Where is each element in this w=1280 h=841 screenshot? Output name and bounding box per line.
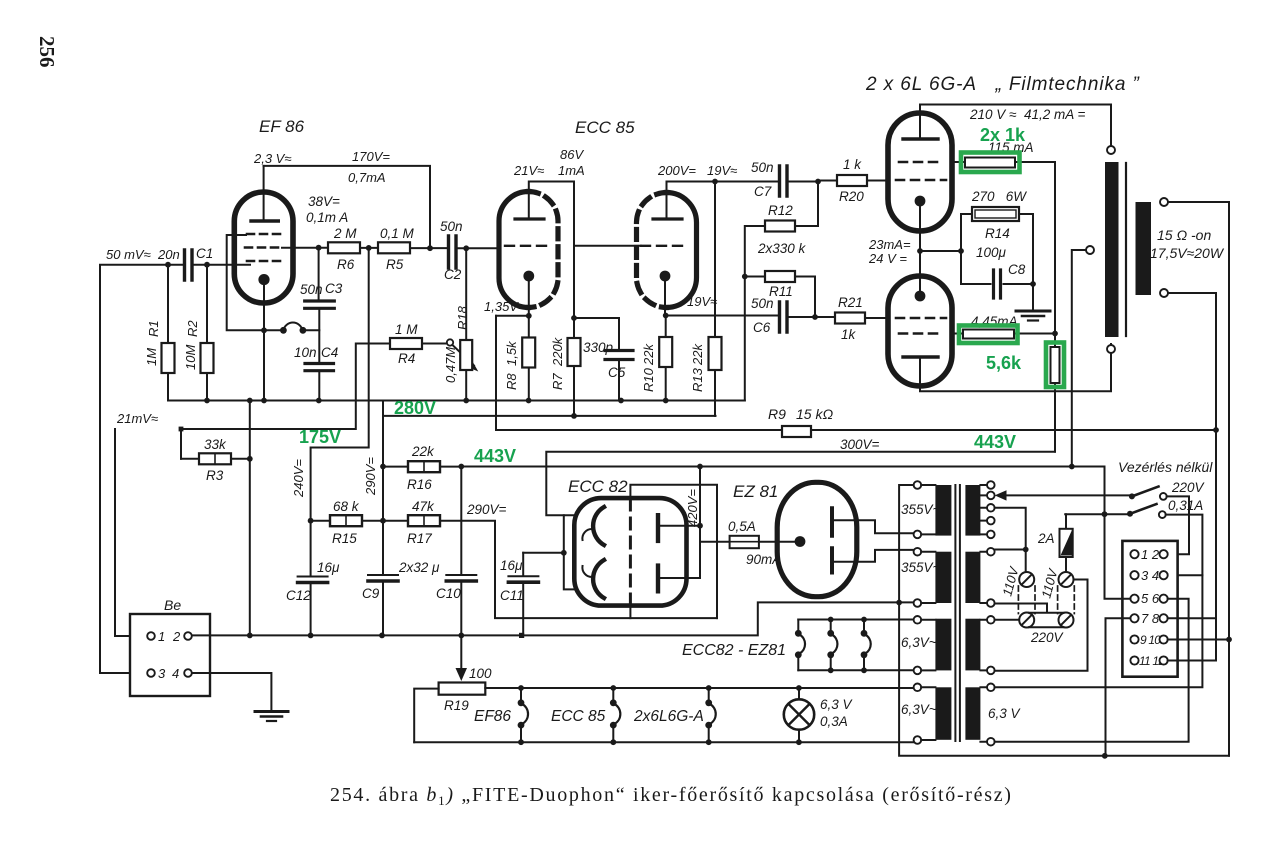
svg-text:1 2: 1 2 xyxy=(1141,547,1160,562)
svg-text:R3: R3 xyxy=(206,468,224,483)
power transformer right winding bars xyxy=(965,485,980,536)
ECC82 anode leads top and bottom xyxy=(630,485,717,618)
heater symbol 1 xyxy=(797,620,799,671)
selector circle 220V lower right xyxy=(1059,613,1074,628)
svg-text:C11: C11 xyxy=(500,588,524,603)
svg-text:R8: R8 xyxy=(504,373,519,390)
svg-text:0,5A: 0,5A xyxy=(728,519,756,534)
svg-text:21mV≈: 21mV≈ xyxy=(116,411,158,426)
svg-text:1 k: 1 k xyxy=(843,157,862,172)
resistor R14 270 6W xyxy=(961,213,1033,215)
svg-text:C3: C3 xyxy=(325,281,343,296)
tube EF86 envelope xyxy=(234,192,293,303)
green box vertical xyxy=(1046,343,1064,388)
wire anode top to R5 output node xyxy=(264,166,430,248)
svg-text:R1: R1 xyxy=(146,320,161,337)
svg-text:1mA: 1mA xyxy=(558,163,585,178)
wire R20 to 6L6 grid xyxy=(867,180,889,182)
EF86 g2 lead to R6 xyxy=(282,247,328,249)
resistor R18 xyxy=(465,248,467,340)
cathode lead and row to feedback column xyxy=(496,281,529,338)
6L6 lower grid2 dashes xyxy=(899,332,943,335)
svg-text:443V: 443V xyxy=(974,432,1016,452)
wire secondary top to socket pin10 xyxy=(1168,202,1229,756)
svg-text:443V: 443V xyxy=(474,446,516,466)
ECC82 cathode bar upper xyxy=(656,515,660,541)
svg-text:Vezérlés nélkül: Vezérlés nélkül xyxy=(1118,459,1213,475)
resistor R5 xyxy=(378,242,410,253)
svg-text:256: 256 xyxy=(35,36,59,68)
svg-text:C12: C12 xyxy=(286,588,311,603)
svg-text:10n: 10n xyxy=(294,345,317,360)
svg-text:2A: 2A xyxy=(1037,531,1055,546)
svg-text:175V: 175V xyxy=(299,427,341,447)
svg-text:R19: R19 xyxy=(444,698,469,713)
capacitor C3 xyxy=(318,249,320,300)
svg-text:33k: 33k xyxy=(204,437,227,452)
common row from Be pin2 to transformer xyxy=(192,602,914,635)
column from R6R5 node down to 240V column xyxy=(311,248,369,576)
svg-text:50 mV≈: 50 mV≈ xyxy=(106,247,151,262)
resistor R6 xyxy=(328,242,360,253)
svg-text:300V=: 300V= xyxy=(840,437,880,452)
wire R11 leads xyxy=(745,277,815,318)
svg-text:ECC 82: ECC 82 xyxy=(568,477,628,496)
svg-text:1,35V=: 1,35V= xyxy=(484,299,526,314)
left terminal stubs xyxy=(921,485,935,740)
output transformer top terminal xyxy=(1107,146,1115,154)
svg-text:254. ábra b1) „FITE-Duophon“ i: 254. ábra b1) „FITE-Duophon“ iker-főerős… xyxy=(330,784,1013,808)
6L6 lower anode bar xyxy=(903,355,938,358)
ECC82 cathode bar lower xyxy=(656,566,660,592)
triode2 cathode lead and row to C6 xyxy=(665,281,778,337)
wire input from Be pin3 up to C1 row xyxy=(100,265,183,673)
wire C7 to R12 and R20 xyxy=(789,181,838,227)
svg-text:0,31A: 0,31A xyxy=(1168,498,1203,513)
6L6 upper grid2 dashes xyxy=(899,161,943,164)
wire pin7 to bottom rail xyxy=(1106,618,1131,756)
svg-text:EF 86: EF 86 xyxy=(259,117,305,136)
EF86 grid3 dashes xyxy=(247,233,281,236)
svg-text:2,3 V≈: 2,3 V≈ xyxy=(253,151,292,166)
svg-text:R10: R10 xyxy=(641,367,656,392)
wire 21mV to Be pin1 xyxy=(115,429,147,636)
6L6 cathode junction xyxy=(920,207,961,291)
wire tap8 to selector lower left xyxy=(995,619,1019,621)
6L6 upper cathode xyxy=(915,196,926,207)
resistor R8 xyxy=(522,338,535,368)
wire C3 to hook row and C4 xyxy=(318,310,320,362)
capacitor C9 xyxy=(368,574,398,576)
svg-text:20n: 20n xyxy=(157,247,180,262)
svg-text:420V=: 420V= xyxy=(685,489,700,527)
svg-text:1M: 1M xyxy=(144,348,159,366)
ECC82 cathode leads xyxy=(660,467,700,579)
svg-text:38V=: 38V= xyxy=(308,194,340,209)
svg-text:R14: R14 xyxy=(985,226,1010,241)
svg-text:100μ: 100μ xyxy=(976,245,1007,260)
wire R4 right to wiper xyxy=(422,343,447,345)
svg-text:355V~: 355V~ xyxy=(901,502,941,517)
svg-text:C5: C5 xyxy=(608,365,626,380)
right terminal stubs xyxy=(980,485,987,742)
svg-text:21V≈: 21V≈ xyxy=(513,163,544,178)
wire C2 to ECC85 grid xyxy=(458,247,500,249)
svg-text:15 kΩ: 15 kΩ xyxy=(796,406,833,422)
right terminals column xyxy=(987,481,995,489)
wire R5 to C2 xyxy=(410,247,447,249)
wire tap7 to 220V link xyxy=(995,604,1047,612)
wire 21mV node down to R3 left xyxy=(180,429,182,459)
svg-text:50n: 50n xyxy=(440,219,463,234)
ground symbol xyxy=(255,710,288,713)
svg-text:355V~: 355V~ xyxy=(901,560,941,575)
rail B ground lower xyxy=(383,401,716,416)
heater row bottom rail xyxy=(414,741,913,743)
wire selector right to transformer 670 tap xyxy=(995,580,1088,671)
svg-text:270 6W: 270 6W xyxy=(971,189,1027,204)
svg-text:1k: 1k xyxy=(841,327,857,342)
svg-text:7 8: 7 8 xyxy=(1141,611,1160,626)
rail C feedback R9 xyxy=(496,316,1216,430)
resistor R9 xyxy=(782,426,811,437)
svg-text:5 6: 5 6 xyxy=(1141,591,1160,606)
EF86 g3 lead and bracket to cathode hook xyxy=(227,235,281,330)
capacitor C1 xyxy=(185,250,193,280)
output transformer core xyxy=(1125,163,1127,336)
fuse 0,5A xyxy=(730,536,759,548)
switch 2 0,31A xyxy=(1127,511,1133,517)
power transformer left winding bars xyxy=(935,485,951,536)
EZ81 cathode xyxy=(795,536,806,547)
heater symbol 2x6L6 xyxy=(708,688,710,742)
svg-text:0,1m A: 0,1m A xyxy=(306,210,348,225)
svg-text:17,5V≈20W: 17,5V≈20W xyxy=(1150,245,1225,261)
EF86 cathode xyxy=(258,274,269,285)
svg-text:C9: C9 xyxy=(362,586,380,601)
heater symbol 3 xyxy=(863,620,865,671)
output transformer tap terminal xyxy=(1086,246,1094,254)
svg-text:C8: C8 xyxy=(1008,262,1026,277)
wire R14 C8 right to ground xyxy=(1032,214,1034,310)
ECC82 triode1 arcs xyxy=(593,507,604,545)
svg-text:R15: R15 xyxy=(332,531,357,546)
svg-text:R20: R20 xyxy=(839,189,864,204)
resistor R3 xyxy=(199,453,231,464)
svg-text:3 4: 3 4 xyxy=(1141,568,1159,583)
ECC85 triode2 grid dashes xyxy=(641,245,689,247)
socket pins row2 xyxy=(1130,571,1138,579)
tube ECC85 triode2 envelope half dashed xyxy=(637,193,667,308)
svg-text:170V=: 170V= xyxy=(352,149,390,164)
6L6 upper grid1 dashes xyxy=(896,179,946,182)
node dot R2 top xyxy=(204,262,210,268)
svg-text:ECC 85: ECC 85 xyxy=(575,118,635,137)
svg-text:Be: Be xyxy=(164,597,181,613)
potentiometer R18 wiper circle xyxy=(447,339,453,345)
ECC85 triode1 cathode xyxy=(523,271,534,282)
wire R17 right to ECC82 anode row xyxy=(440,521,717,618)
svg-text:R4: R4 xyxy=(398,351,415,366)
6L6 lower g2 lead to screen resistor xyxy=(952,333,1055,335)
svg-text:0,7mA: 0,7mA xyxy=(348,170,386,185)
resistor R4 xyxy=(390,338,422,349)
selector circle 110V upper left xyxy=(1019,572,1034,587)
wire to fuse 0,5A xyxy=(700,541,794,543)
svg-text:3: 3 xyxy=(158,666,166,681)
svg-text:47k: 47k xyxy=(412,499,435,514)
connector Be xyxy=(130,614,210,696)
svg-text:220k: 220k xyxy=(550,336,565,367)
capacitor C2 xyxy=(449,236,457,268)
svg-text:ECC 85: ECC 85 xyxy=(551,708,606,725)
Be pin 1 xyxy=(147,632,155,640)
svg-text:1 M: 1 M xyxy=(395,322,418,337)
wire fuse top to 443V column and switch2 xyxy=(1065,513,1130,515)
pilot lamp xyxy=(784,699,814,729)
svg-text:0,3A: 0,3A xyxy=(820,714,848,729)
capacitor C7 xyxy=(780,166,788,196)
svg-text:ECC82 - EZ81: ECC82 - EZ81 xyxy=(682,642,786,659)
switch 1 220V xyxy=(1129,493,1135,499)
wire R21 to 6L6 grid xyxy=(865,317,889,319)
screen resistor lower xyxy=(963,330,1014,339)
resistor R13 xyxy=(709,337,722,370)
svg-text:16μ: 16μ xyxy=(500,558,523,573)
ECC85 triode1 anode bar xyxy=(515,217,544,220)
resistor R2 xyxy=(206,265,208,401)
300V rail xyxy=(546,452,1055,516)
green box lower xyxy=(959,326,1018,344)
svg-text:C6: C6 xyxy=(753,320,771,335)
wire R15 leads xyxy=(311,520,408,522)
443V rail xyxy=(461,466,1104,468)
ground symbol at C8 xyxy=(1016,310,1050,313)
svg-text:100: 100 xyxy=(469,666,492,681)
left return bus xyxy=(899,485,1229,756)
heater row node dots xyxy=(518,685,524,691)
heater bus bottom xyxy=(798,669,913,671)
svg-text:R6: R6 xyxy=(337,257,355,272)
wire 443V column to pin5 xyxy=(1105,467,1131,599)
resistor R10 xyxy=(659,337,672,367)
svg-text:R9: R9 xyxy=(768,406,786,422)
tube 6L6 upper envelope xyxy=(888,113,952,231)
6L6 lower anode lead to transformer xyxy=(920,344,1111,391)
tube EZ81 envelope xyxy=(777,482,857,596)
ECC85 triode2 anode bar xyxy=(653,217,682,220)
heater bus top xyxy=(798,619,913,621)
potentiometer R18 arrow xyxy=(452,345,474,366)
left terminals column xyxy=(914,481,922,489)
wire pin6 to 6,3V winding terminal xyxy=(995,599,1189,742)
svg-text:290V=: 290V= xyxy=(466,502,507,517)
wire C6 to R21 xyxy=(789,316,836,318)
potentiometer R19 xyxy=(439,683,486,695)
fuse 2A xyxy=(1065,514,1067,572)
wire R6 to R5 xyxy=(360,247,378,249)
svg-text:R7: R7 xyxy=(550,373,565,390)
wire pin8 to speaker line xyxy=(1168,617,1216,619)
svg-text:5,6k: 5,6k xyxy=(986,353,1022,373)
svg-text:C10: C10 xyxy=(436,586,461,601)
svg-text:240V=: 240V= xyxy=(291,459,306,498)
svg-text:6,3V~: 6,3V~ xyxy=(901,702,937,717)
green box upper xyxy=(961,153,1020,173)
resistor R12 xyxy=(765,221,795,232)
EF86 cathode lead down to ground rail xyxy=(263,285,265,401)
secondary terminals xyxy=(1160,198,1168,206)
tube 6L6 lower envelope xyxy=(888,276,952,386)
wire pin10 to speaker line xyxy=(1168,639,1229,641)
svg-text:330p: 330p xyxy=(583,340,614,355)
socket panel xyxy=(1122,541,1177,677)
wire R4 left down to 21mV node xyxy=(181,344,390,430)
svg-text:19V≈: 19V≈ xyxy=(707,163,737,178)
svg-text:0,1 M: 0,1 M xyxy=(380,226,415,241)
svg-text:68 k: 68 k xyxy=(333,499,360,514)
6L6 upper g2 lead to screen resistor xyxy=(952,162,1055,334)
resistor R16 xyxy=(408,461,440,472)
capacitor C10 xyxy=(446,574,476,576)
svg-text:6,3V~: 6,3V~ xyxy=(901,635,937,650)
6L6 lower cathode xyxy=(915,291,926,302)
svg-text:2 M: 2 M xyxy=(333,226,357,241)
tube ECC85 triode1 envelope half dashed xyxy=(529,192,559,308)
svg-text:24 V =: 24 V = xyxy=(868,251,907,266)
socket pins row4 xyxy=(1130,614,1138,622)
svg-text:50n: 50n xyxy=(751,160,774,175)
svg-text:22k: 22k xyxy=(641,343,656,366)
svg-text:2x32 μ: 2x32 μ xyxy=(398,560,440,575)
svg-text:23mA=: 23mA= xyxy=(868,237,911,252)
selector circle 110V upper right xyxy=(1059,572,1074,587)
node dot C3 column top xyxy=(316,245,322,251)
svg-text:R17: R17 xyxy=(407,531,432,546)
svg-text:50n: 50n xyxy=(751,296,774,311)
resistor R1 xyxy=(167,265,169,401)
switch2 to socket pin4 xyxy=(1166,515,1203,576)
tube ECC85 triode2 envelope half solid xyxy=(667,193,697,308)
svg-text:EZ 81: EZ 81 xyxy=(733,482,778,501)
wire pin12 to speaker line xyxy=(1168,660,1216,662)
svg-text:19V≈: 19V≈ xyxy=(687,294,717,309)
svg-text:2: 2 xyxy=(172,629,181,644)
wire secondary bottom to socket pin12 xyxy=(1168,293,1216,661)
socket pins row3 xyxy=(1130,595,1138,603)
svg-text:C1: C1 xyxy=(196,246,213,261)
wire R12 left down to ground rail xyxy=(745,226,765,401)
resistor R20 xyxy=(837,175,867,186)
Be pin 3 xyxy=(147,669,155,677)
resistor R7 xyxy=(568,338,581,366)
svg-text:22k: 22k xyxy=(411,444,435,459)
svg-text:2x 1k: 2x 1k xyxy=(980,125,1026,145)
svg-text:10M: 10M xyxy=(183,345,198,370)
svg-text:R2: R2 xyxy=(185,320,200,337)
capacitor C11 xyxy=(508,575,538,577)
wire R3 right to rail and pin2 row xyxy=(231,401,250,636)
heater loop left xyxy=(414,689,438,743)
wire to C5 xyxy=(574,318,619,349)
svg-text:50n: 50n xyxy=(300,282,323,297)
node dots on ground rail xyxy=(204,398,210,404)
capacitor C4 xyxy=(305,364,334,371)
svg-text:R18: R18 xyxy=(455,305,470,330)
220V link bars xyxy=(1029,613,1064,627)
selector circle 220V lower left xyxy=(1019,613,1034,628)
svg-text:EF86: EF86 xyxy=(474,708,511,725)
tube ECC82 envelope xyxy=(574,498,686,605)
svg-text:2 x 6L 6G-A „ Filmtechnika ”: 2 x 6L 6G-A „ Filmtechnika ” xyxy=(865,74,1141,95)
heater row top rail xyxy=(485,687,913,689)
svg-text:4: 4 xyxy=(172,666,179,681)
ECC82 center partition dashed xyxy=(629,499,632,605)
svg-text:210 V ≈ 41,2 mA =: 210 V ≈ 41,2 mA = xyxy=(969,107,1085,122)
output transformer primary winding xyxy=(1105,162,1119,337)
heater symbol 2 xyxy=(830,620,832,671)
socket pins row6 xyxy=(1130,656,1138,664)
wire R3 left lead xyxy=(181,458,199,460)
svg-text:6,3 V: 6,3 V xyxy=(988,706,1022,721)
wire C10 node down to R19 arrow xyxy=(460,635,462,668)
svg-text:R21: R21 xyxy=(838,295,863,310)
wire R16 leads xyxy=(383,466,461,468)
screen resistor upper xyxy=(965,158,1015,168)
node dot between R6 R5 xyxy=(366,245,372,251)
wire pin4 column to transformer 687 terminal xyxy=(995,575,1203,687)
svg-text:C7: C7 xyxy=(754,184,772,199)
node dot R1 top xyxy=(165,262,171,268)
resistor R11 xyxy=(765,271,795,282)
EF86 grid1 dashes xyxy=(247,260,281,263)
capacitor C5 xyxy=(605,351,633,360)
svg-text:290V=: 290V= xyxy=(363,457,378,496)
svg-text:9 10: 9 10 xyxy=(1140,633,1161,647)
heater symbol EF86 xyxy=(520,688,522,742)
column 383 down to R16 R17 C9 xyxy=(382,416,384,574)
svg-text:16μ: 16μ xyxy=(317,560,340,575)
ECC82 grid bracket xyxy=(564,515,575,589)
resistor R15 xyxy=(330,515,362,526)
EZ81 anode bars xyxy=(830,508,834,572)
tap3 tap6 join xyxy=(995,508,1026,572)
svg-text:0,47M: 0,47M xyxy=(443,347,458,383)
ECC85 triode2 grid lead xyxy=(574,245,641,247)
svg-text:R13: R13 xyxy=(690,367,705,392)
output transformer secondary winding xyxy=(1136,202,1152,295)
svg-text:15 Ω -on: 15 Ω -on xyxy=(1157,227,1211,243)
svg-text:C4: C4 xyxy=(321,345,338,360)
ECC85 triode2 cathode xyxy=(660,271,671,282)
svg-text:6,3 V: 6,3 V xyxy=(820,697,854,712)
svg-text:200V=: 200V= xyxy=(657,163,696,178)
svg-text:220V: 220V xyxy=(1171,480,1206,495)
tube ECC85 triode1 envelope half solid xyxy=(499,192,529,308)
svg-text:2x330 k: 2x330 k xyxy=(757,241,807,256)
ECC85 triode1 grid dashes xyxy=(505,245,553,247)
EF86 suppressor hook arc xyxy=(283,323,302,331)
resistor 5,6k vertical xyxy=(1054,334,1056,452)
svg-text:R16: R16 xyxy=(407,477,432,492)
top rail 210V to output transformer xyxy=(920,105,1111,147)
selector dashed guides xyxy=(1018,586,1074,614)
svg-text:220V: 220V xyxy=(1030,630,1065,645)
6L6 upper anode bar xyxy=(903,137,938,140)
EF86 anode bar xyxy=(251,219,278,222)
anode column to 86V node and R7 C5 xyxy=(529,182,574,339)
mains arrow tap to switch xyxy=(1002,494,1132,496)
